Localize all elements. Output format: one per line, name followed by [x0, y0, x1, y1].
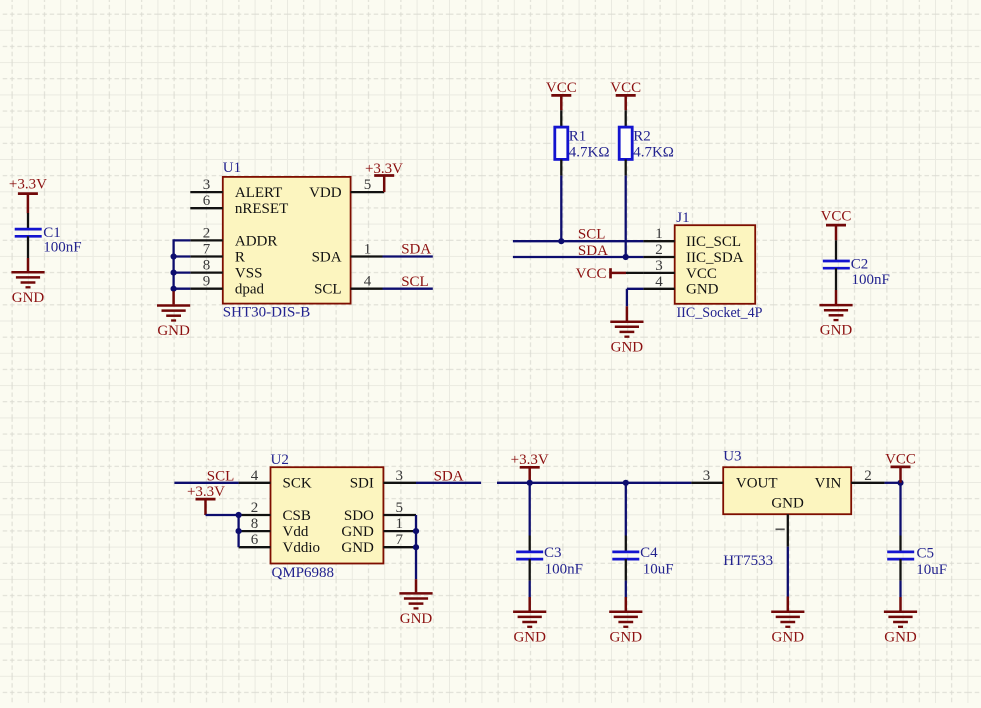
- svg-text:VCC: VCC: [610, 80, 641, 96]
- IC U3 HT7533 body: [723, 448, 851, 569]
- svg-text:1: 1: [364, 242, 372, 258]
- IC U1 SHT30-DIS-B body: [223, 160, 351, 320]
- power port VCC (U3 VIN): [885, 452, 916, 483]
- power port +3.3V (C1 branch): [9, 177, 47, 214]
- wire R2 to bus: [625, 176, 627, 257]
- U1 pin 5 VDD: [309, 177, 384, 201]
- wire J1 pin3 VCC: [626, 272, 643, 274]
- junction (C3): [527, 480, 533, 486]
- wire SDA (U2): [416, 482, 481, 484]
- svg-text:GND: GND: [12, 290, 45, 306]
- resistor R2 4.7K: [619, 110, 674, 175]
- net label SCL (U2): [207, 468, 235, 484]
- U2 pin 6 Vddio: [239, 532, 320, 556]
- svg-text:SDA: SDA: [578, 243, 608, 259]
- svg-text:SDO: SDO: [344, 508, 374, 524]
- wire +3.3V to U2 CSB/Vdd/Vddio: [206, 515, 239, 547]
- U1 pin 2 ADDR: [190, 225, 277, 249]
- J1 pin 1 IIC_SCL: [643, 226, 741, 250]
- svg-text:8: 8: [251, 516, 259, 532]
- svg-text:Vddio: Vddio: [283, 540, 321, 556]
- junction (U1 pin9): [171, 286, 177, 292]
- svg-text:dpad: dpad: [235, 282, 265, 298]
- svg-text:R: R: [235, 249, 245, 265]
- svg-text:2: 2: [864, 468, 872, 484]
- net label SDA (U2): [434, 468, 464, 484]
- svg-text:ADDR: ADDR: [235, 233, 278, 249]
- svg-text:VOUT: VOUT: [736, 476, 778, 492]
- svg-text:+3.3V: +3.3V: [187, 484, 225, 500]
- junction (R2): [623, 254, 629, 260]
- wire SCL (J1 row): [513, 240, 644, 242]
- wire U2 SDO/GND to ground: [415, 515, 417, 579]
- U1 pin 8 VSS: [190, 258, 262, 282]
- wire J1 pin4 to ground: [627, 289, 644, 307]
- wire SCL (U1): [383, 288, 433, 290]
- svg-text:5: 5: [396, 500, 404, 516]
- svg-text:GND: GND: [771, 495, 804, 511]
- svg-text:3: 3: [203, 177, 211, 193]
- J1 pin 4 GND: [643, 274, 718, 298]
- wire U3 VIN to VCC: [885, 482, 901, 484]
- svg-text:nRESET: nRESET: [235, 201, 288, 217]
- svg-text:GND: GND: [341, 524, 374, 540]
- svg-text:SCL: SCL: [578, 227, 606, 243]
- svg-text:3: 3: [655, 258, 663, 274]
- net label SCL (U1): [401, 274, 429, 290]
- svg-text:6: 6: [251, 532, 259, 548]
- svg-text:J1: J1: [676, 210, 689, 226]
- svg-text:4: 4: [655, 274, 663, 290]
- svg-text:2: 2: [203, 225, 211, 241]
- svg-text:VCC: VCC: [686, 266, 717, 282]
- svg-text:GND: GND: [611, 339, 644, 355]
- svg-text:U2: U2: [271, 452, 289, 468]
- svg-text:IIC_SCL: IIC_SCL: [686, 234, 741, 250]
- svg-text:4: 4: [364, 274, 372, 290]
- wire SDA (U1): [383, 255, 433, 257]
- svg-text:100nF: 100nF: [545, 561, 583, 577]
- capacitor C2: [823, 240, 890, 290]
- svg-text:GND: GND: [400, 611, 433, 627]
- svg-text:GND: GND: [610, 629, 643, 645]
- junction (U1 pin8): [171, 270, 177, 276]
- junction (R1): [558, 238, 564, 244]
- svg-text:1: 1: [396, 516, 404, 532]
- J1 pin 2 IIC_SDA: [643, 242, 743, 266]
- svg-text:SCL: SCL: [401, 274, 429, 290]
- net label SDA: [578, 243, 608, 259]
- svg-text:VIN: VIN: [815, 476, 842, 492]
- U1 pin 1 SDA: [312, 242, 383, 266]
- connector J1 IIC_Socket_4P body: [675, 210, 763, 321]
- svg-text:4.7KΩ: 4.7KΩ: [633, 145, 674, 161]
- ground GND (U3): [771, 597, 804, 646]
- svg-text:9: 9: [203, 274, 211, 290]
- ground GND (C5): [884, 597, 917, 645]
- svg-text:U1: U1: [223, 160, 241, 176]
- ground GND (C3): [513, 597, 546, 645]
- capacitor C4: [612, 483, 673, 597]
- svg-text:1: 1: [655, 226, 663, 242]
- junction (U1 pin7): [171, 253, 177, 259]
- svg-text:VDD: VDD: [309, 185, 342, 201]
- svg-text:GND: GND: [157, 323, 190, 339]
- ground GND (C2): [819, 290, 852, 339]
- svg-text:ALERT: ALERT: [235, 185, 282, 201]
- svg-text:2: 2: [655, 242, 663, 258]
- svg-text:100nF: 100nF: [43, 240, 81, 256]
- U3 pin 2 VIN: [815, 468, 885, 492]
- svg-text:SCK: SCK: [283, 476, 312, 492]
- svg-text:GND: GND: [341, 540, 374, 556]
- svg-text:Vdd: Vdd: [283, 524, 309, 540]
- power port VCC (C2 branch): [821, 209, 852, 241]
- junction (C4): [623, 480, 629, 486]
- power port +3.3V (C3 rail): [511, 452, 549, 483]
- svg-text:GND: GND: [820, 323, 853, 339]
- svg-text:SDA: SDA: [401, 242, 431, 258]
- junction (U2 pin7): [413, 544, 419, 550]
- ground GND (C4): [609, 597, 642, 645]
- svg-text:GND: GND: [884, 629, 917, 645]
- svg-text:SDA: SDA: [434, 468, 464, 484]
- power port VCC (R1): [546, 80, 577, 111]
- svg-text:5: 5: [364, 177, 372, 193]
- svg-text:R2: R2: [633, 128, 651, 144]
- capacitor C5: [887, 483, 947, 597]
- svg-text:+3.3V: +3.3V: [9, 177, 47, 193]
- ground GND (U2): [399, 579, 432, 627]
- U3 pin 3 VOUT: [691, 468, 777, 492]
- U2 pin 4 SCK: [239, 468, 312, 492]
- power port +3.3V (U2): [187, 484, 225, 515]
- junction (U2 pin1): [413, 528, 419, 534]
- ground GND (C1): [11, 258, 44, 306]
- svg-text:CSB: CSB: [283, 508, 311, 524]
- U2 pin 5 SDO: [344, 500, 416, 524]
- svg-text:6: 6: [203, 193, 211, 209]
- svg-text:C5: C5: [917, 546, 935, 562]
- U1 pin 4 SCL: [314, 274, 382, 298]
- svg-text:4.7KΩ: 4.7KΩ: [569, 145, 610, 161]
- svg-text:10uF: 10uF: [643, 561, 674, 577]
- wire +3.3V rail to U3 pin3: [497, 482, 691, 484]
- svg-text:VSS: VSS: [235, 266, 263, 282]
- junction (U2 pin8): [236, 528, 242, 534]
- svg-text:IIC_SDA: IIC_SDA: [686, 250, 744, 266]
- U1 pin 3 ALERT: [190, 177, 282, 201]
- capacitor C1: [15, 213, 82, 258]
- svg-text:3: 3: [703, 468, 711, 484]
- svg-text:C2: C2: [851, 257, 869, 273]
- IC U2 QMP6988 body: [271, 452, 384, 581]
- U3 pin 1 GND: [771, 495, 804, 546]
- svg-text:VCC: VCC: [821, 209, 852, 225]
- U1 pin 7 R: [190, 242, 245, 266]
- svg-text:VCC: VCC: [576, 266, 607, 282]
- U1 pin 9 dpad: [190, 274, 264, 298]
- ground GND (U1): [157, 291, 190, 339]
- junction (VCC / C5): [897, 480, 903, 486]
- svg-text:SDA: SDA: [312, 249, 342, 265]
- svg-text:VCC: VCC: [546, 80, 577, 96]
- wire U1 ground tree: [174, 239, 191, 288]
- resistor R1 4.7K: [555, 110, 610, 175]
- wire U3 GND to ground: [787, 547, 789, 597]
- svg-text:R1: R1: [569, 128, 587, 144]
- net label SCL: [578, 227, 606, 243]
- svg-text:2: 2: [251, 500, 259, 516]
- wire R1 to bus: [560, 176, 562, 242]
- svg-text:4: 4: [251, 468, 259, 484]
- svg-text:SCL: SCL: [314, 282, 342, 298]
- svg-text:GND: GND: [513, 629, 546, 645]
- svg-text:7: 7: [203, 242, 211, 258]
- U2 pin 8 Vdd: [239, 516, 309, 540]
- power port +3.3V (U1 VDD): [365, 161, 403, 192]
- U2 pin 1 GND: [341, 516, 416, 540]
- svg-text:3: 3: [396, 468, 404, 484]
- power port VCC (R2): [610, 80, 641, 111]
- junction (U2 pin2): [236, 512, 242, 518]
- svg-text:QMP6988: QMP6988: [272, 565, 335, 581]
- svg-text:10uF: 10uF: [916, 562, 947, 578]
- ground GND (J1): [610, 306, 643, 355]
- capacitor C3: [516, 483, 583, 597]
- U2 pin 2 CSB: [239, 500, 311, 524]
- svg-text:SHT30-DIS-B: SHT30-DIS-B: [223, 305, 311, 321]
- svg-text:C4: C4: [640, 545, 658, 561]
- U2 pin 7 GND: [341, 532, 416, 556]
- wire SDA (J1 row): [513, 256, 644, 258]
- svg-text:SDI: SDI: [350, 476, 374, 492]
- svg-text:C1: C1: [43, 225, 61, 241]
- J1 pin 3 VCC: [643, 258, 716, 282]
- svg-text:GND: GND: [686, 282, 719, 298]
- power port VCC (J1 pin3): [576, 266, 626, 282]
- svg-text:GND: GND: [772, 629, 805, 645]
- svg-text:8: 8: [203, 258, 211, 274]
- svg-text:+3.3V: +3.3V: [511, 452, 549, 468]
- net label SDA (U1): [401, 242, 431, 258]
- svg-text:100nF: 100nF: [852, 272, 890, 288]
- svg-text:U3: U3: [723, 448, 741, 464]
- svg-text:IIC_Socket_4P: IIC_Socket_4P: [677, 305, 763, 321]
- svg-text:7: 7: [396, 532, 404, 548]
- U1 pin 6 nRESET: [190, 193, 288, 217]
- svg-text:HT7533: HT7533: [723, 553, 773, 569]
- U2 pin 3 SDI: [350, 468, 416, 492]
- svg-text:VCC: VCC: [885, 452, 916, 468]
- svg-text:SCL: SCL: [207, 468, 235, 484]
- svg-text:C3: C3: [544, 545, 562, 561]
- wire SCL (U2): [174, 482, 238, 484]
